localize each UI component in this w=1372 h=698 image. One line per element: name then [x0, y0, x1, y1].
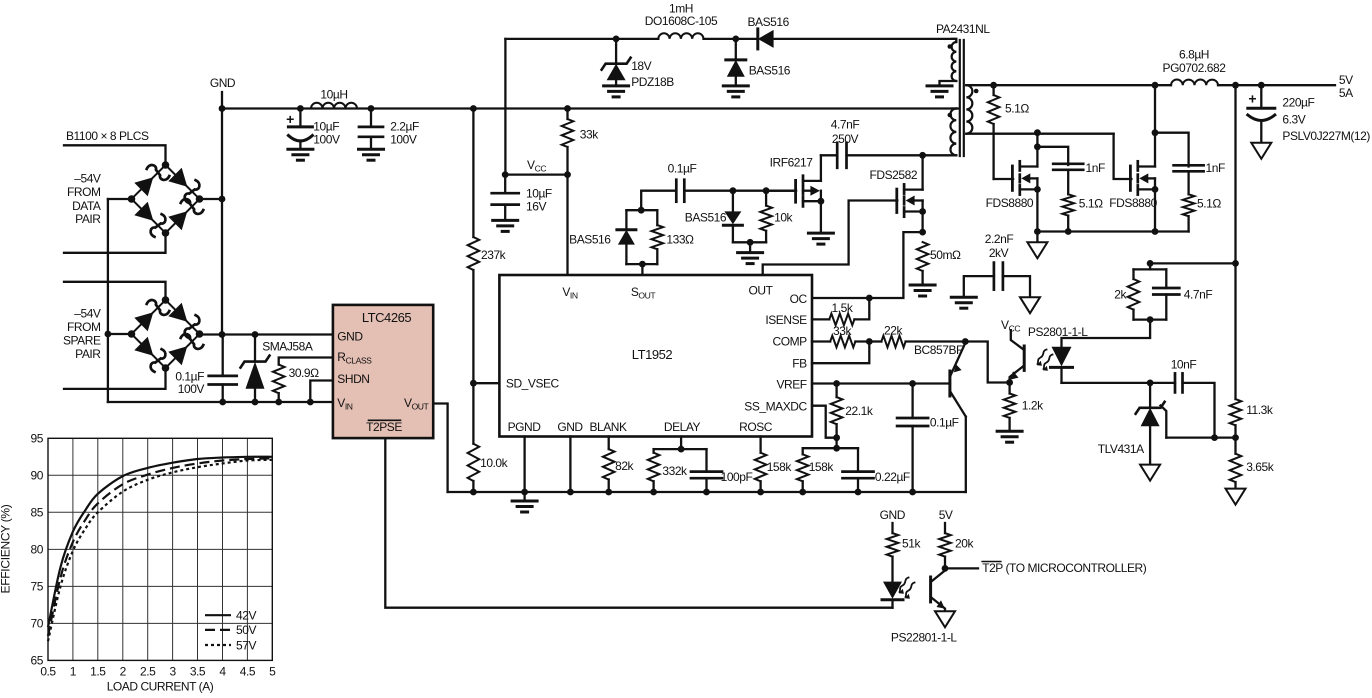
- wire T2PSE to opto: [385, 438, 892, 608]
- ground: [935, 611, 955, 627]
- svg-text:FDS8880: FDS8880: [1109, 196, 1157, 210]
- svg-text:158k: 158k: [809, 460, 835, 474]
- svg-text:57V: 57V: [236, 638, 256, 652]
- svg-text:85: 85: [31, 505, 44, 519]
- svg-text:PDZ18B: PDZ18B: [631, 75, 674, 89]
- label PS2801-1-L: [1028, 325, 1088, 339]
- svg-text:5V: 5V: [939, 508, 953, 522]
- ground: [1226, 489, 1246, 505]
- ground: [808, 233, 833, 244]
- transistor FDS8880 second: [1109, 85, 1158, 231]
- transistor BC857BF: [914, 338, 969, 492]
- svg-text:COMP: COMP: [772, 334, 807, 348]
- svg-text:10µF: 10µF: [526, 187, 552, 201]
- IC LTC4265: [333, 305, 433, 438]
- graph curve 57V: [48, 460, 272, 641]
- resistor 20k: [939, 523, 974, 572]
- svg-text:B1100 × 8 PLCS: B1100 × 8 PLCS: [66, 129, 149, 143]
- IC LT1952: [499, 275, 812, 437]
- ground: [951, 297, 976, 308]
- svg-text:4: 4: [219, 665, 226, 679]
- svg-text:0.22µF: 0.22µF: [875, 470, 910, 484]
- svg-text:FROM: FROM: [67, 185, 101, 199]
- svg-text:4.7nF: 4.7nF: [831, 117, 860, 131]
- svg-text:SS_MAXDC: SS_MAXDC: [744, 399, 807, 413]
- svg-text:22.1k: 22.1k: [845, 404, 874, 418]
- svg-text:FB: FB: [792, 356, 807, 370]
- wire VOUT: [433, 404, 447, 493]
- svg-text:+: +: [286, 111, 294, 127]
- svg-text:33k: 33k: [580, 128, 599, 142]
- svg-text:100V: 100V: [178, 382, 205, 396]
- svg-text:ROSC: ROSC: [739, 420, 773, 434]
- resistor 22.1k: [831, 384, 874, 452]
- wire source rail: [1037, 228, 1188, 235]
- svg-text:1nF: 1nF: [1206, 161, 1225, 175]
- svg-text:OC: OC: [790, 292, 808, 306]
- label 5V: [939, 508, 953, 522]
- svg-text:332k: 332k: [662, 464, 688, 478]
- svg-text:10k: 10k: [774, 211, 793, 225]
- capacitor 2.2nF 2kV: [964, 232, 1030, 297]
- wire PGND pin: [523, 437, 525, 502]
- wire switch node: [847, 152, 957, 159]
- wire bridge1 left: [108, 198, 132, 200]
- svg-text:BAS516: BAS516: [685, 211, 727, 225]
- svg-text:2kV: 2kV: [989, 246, 1009, 260]
- wire 5V output: [1218, 82, 1335, 89]
- svg-text:1.5: 1.5: [90, 665, 106, 679]
- svg-text:10µH: 10µH: [320, 87, 347, 101]
- diode BAS516 shunt: [726, 39, 791, 86]
- svg-text:T2PSE: T2PSE: [366, 420, 402, 434]
- resistor 237k: [468, 237, 507, 270]
- resistor 30.9ohm: [273, 358, 333, 403]
- svg-text:1: 1: [70, 665, 77, 679]
- svg-text:GND: GND: [337, 330, 363, 344]
- svg-text:18V: 18V: [631, 59, 651, 73]
- wire -54V rail: [108, 399, 333, 406]
- opto LED PS22801: [882, 582, 903, 608]
- svg-text:T2P (TO MICROCONTROLLER): T2P (TO MICROCONTROLLER): [982, 561, 1147, 575]
- svg-text:1nF: 1nF: [1086, 161, 1105, 175]
- resistor 3.65k: [1230, 438, 1275, 489]
- wire DELAY node: [654, 437, 707, 453]
- svg-text:PGND: PGND: [508, 420, 542, 434]
- wire T2P: [945, 567, 978, 569]
- ground: [1020, 297, 1040, 313]
- diode BAS516 sout: [569, 210, 657, 264]
- node GND label: [210, 76, 236, 90]
- svg-text:158k: 158k: [767, 460, 793, 474]
- wire data pair B: [64, 233, 166, 253]
- svg-text:PA2431NL: PA2431NL: [936, 22, 990, 36]
- zener 18V PDZ18B: [602, 39, 675, 89]
- wire VREF: [812, 380, 950, 387]
- svg-text:LT1952: LT1952: [632, 347, 673, 362]
- capacitor 100pF: [691, 449, 752, 492]
- opto light arrows 2: [899, 578, 915, 599]
- ground: [927, 86, 952, 97]
- svg-text:100V: 100V: [390, 133, 417, 147]
- svg-text:DO1608C-105: DO1608C-105: [645, 14, 718, 28]
- label 5V 5A: [1339, 73, 1353, 100]
- svg-text:5.1Ω: 5.1Ω: [1005, 102, 1029, 116]
- wire SD_VSEC: [473, 382, 499, 384]
- svg-text:–54V: –54V: [74, 172, 101, 186]
- ground: [1251, 143, 1271, 159]
- svg-text:TLV431A: TLV431A: [1098, 442, 1144, 456]
- svg-text:SHDN: SHDN: [337, 372, 369, 386]
- resistor 33k: [562, 109, 600, 175]
- svg-text:10µF: 10µF: [313, 120, 339, 134]
- ground: [288, 149, 313, 160]
- capacitor 4.7nF fb: [1153, 269, 1212, 319]
- diode BAS516 gate clamp: [685, 191, 743, 243]
- ground: [910, 285, 935, 296]
- wire secondary bottom: [966, 129, 1113, 136]
- resistor 1.5k: [812, 298, 869, 325]
- svg-text:95: 95: [31, 431, 44, 445]
- svg-text:11.3k: 11.3k: [1246, 403, 1274, 417]
- wire top rail: [505, 36, 658, 43]
- svg-text:SPARE: SPARE: [63, 334, 101, 348]
- svg-text:BAS516: BAS516: [749, 64, 791, 78]
- svg-text:LTC4265: LTC4265: [362, 310, 412, 325]
- graph axis labels: [31, 431, 277, 678]
- svg-text:20k: 20k: [955, 537, 974, 551]
- ground: [604, 86, 629, 97]
- graph grid: [48, 438, 272, 660]
- svg-text:5: 5: [269, 665, 276, 679]
- svg-text:2.2µF: 2.2µF: [390, 120, 419, 134]
- svg-text:3.5: 3.5: [190, 665, 206, 679]
- bridge rectifier B1100 (data pair): [128, 161, 204, 237]
- svg-text:70: 70: [31, 616, 44, 630]
- opto LED PS2801: [1051, 347, 1073, 383]
- graph legend: [205, 609, 256, 653]
- inductor 6.8uH PG0702.682: [1163, 48, 1227, 86]
- svg-text:10.0k: 10.0k: [480, 456, 509, 470]
- transformer core: [960, 40, 964, 156]
- node VCC opto: [1001, 318, 1020, 334]
- ground: [512, 501, 537, 512]
- wire maxdc node: [803, 447, 858, 449]
- ground: [738, 253, 763, 264]
- node VCC: [502, 158, 571, 178]
- svg-text:30.9Ω: 30.9Ω: [289, 366, 320, 380]
- svg-text:51k: 51k: [902, 537, 921, 551]
- svg-text:100pF: 100pF: [721, 470, 753, 484]
- wire GND to LTC4265: [200, 331, 333, 338]
- svg-text:PS22801-1-L: PS22801-1-L: [891, 631, 958, 645]
- resistor 10k: [760, 191, 793, 243]
- wire fb divider node: [1166, 434, 1239, 441]
- transformer primary W2: [948, 109, 957, 156]
- capacitor 220uF 6.3V: [1248, 85, 1371, 143]
- opto transistor PS2801: [1006, 330, 1024, 386]
- capacitor 10uF 16V: [492, 175, 552, 221]
- svg-text:2.5: 2.5: [140, 665, 156, 679]
- transistor IRF6217: [770, 155, 825, 233]
- svg-text:OUT: OUT: [749, 284, 774, 298]
- svg-text:DATA: DATA: [72, 199, 101, 213]
- resistor 50mohm: [917, 242, 961, 285]
- svg-text:3: 3: [169, 665, 176, 679]
- wire to 10k: [472, 383, 474, 444]
- svg-text:133Ω: 133Ω: [666, 232, 694, 246]
- svg-text:2: 2: [120, 665, 127, 679]
- svg-text:PSLV0J227M(12): PSLV0J227M(12): [1282, 129, 1370, 143]
- wire data pair A: [64, 145, 166, 165]
- inductor 1mH DO1608C-105: [645, 1, 718, 39]
- resistor 158k rosc: [755, 437, 793, 493]
- svg-text:ISENSE: ISENSE: [765, 313, 807, 327]
- wire LED cathode row: [1062, 380, 1176, 387]
- wire negative bus: [105, 199, 112, 402]
- svg-text:50V: 50V: [236, 623, 256, 637]
- ground: [493, 220, 518, 231]
- svg-text:PAIR: PAIR: [75, 212, 101, 226]
- wire: [704, 36, 758, 43]
- svg-text:82k: 82k: [615, 459, 634, 473]
- wire SS_MAXDC: [812, 406, 837, 438]
- wire 5V riser: [1232, 85, 1239, 399]
- svg-text:PG0702.682: PG0702.682: [1163, 61, 1227, 75]
- wire bridge2 left: [108, 333, 132, 335]
- wire FB: [812, 342, 869, 364]
- wire main rail: [222, 105, 959, 112]
- capacitor 1nF snub1: [1037, 147, 1105, 195]
- wire current sense: [812, 232, 923, 301]
- opto light arrows: [1037, 350, 1053, 371]
- svg-text:VREF: VREF: [776, 378, 806, 392]
- capacitor 10uF 100V: [286, 109, 340, 150]
- resistor 11.3k: [1230, 399, 1274, 438]
- svg-text:42V: 42V: [236, 609, 256, 623]
- wire 2k top link: [1147, 260, 1236, 267]
- svg-text:5.1Ω: 5.1Ω: [1197, 197, 1221, 211]
- capacitor 0.1uF vref: [897, 384, 959, 493]
- svg-text:50mΩ: 50mΩ: [930, 248, 961, 262]
- wire spare pair A: [64, 282, 166, 300]
- svg-text:0.1µF: 0.1µF: [930, 415, 959, 429]
- wire 237k to SD_VSEC: [470, 270, 477, 387]
- svg-text:220µF: 220µF: [1282, 96, 1314, 110]
- wire: [1036, 232, 1038, 243]
- wire 5V rail: [966, 82, 1171, 89]
- svg-text:4.7nF: 4.7nF: [1184, 288, 1213, 302]
- TVS SMAJ58A: [241, 335, 313, 403]
- graph curve 50V: [48, 458, 272, 636]
- shunt ref TLV431A: [1098, 383, 1167, 465]
- capacitor 4.7nF 250V: [821, 117, 859, 168]
- label PS22801-1-L: [891, 631, 958, 645]
- wire SOUT: [626, 261, 657, 275]
- svg-text:75: 75: [31, 579, 44, 593]
- inductor 10uH: [311, 87, 357, 108]
- label PA2431NL: [936, 22, 990, 36]
- svg-text:90: 90: [31, 468, 44, 482]
- transformer primary W1: [940, 39, 957, 86]
- wire gate2 link: [1114, 134, 1132, 179]
- resistor 22k: [869, 323, 965, 347]
- ground: [1027, 242, 1047, 258]
- svg-text:DELAY: DELAY: [664, 420, 701, 434]
- wire bridge1 right: [200, 198, 223, 200]
- resistor 82k: [603, 437, 635, 493]
- svg-text:LOAD CURRENT (A): LOAD CURRENT (A): [107, 680, 214, 694]
- svg-text:0.1µF: 0.1µF: [668, 161, 697, 175]
- svg-text:GND: GND: [557, 420, 583, 434]
- svg-text:SMAJ58A: SMAJ58A: [262, 339, 313, 353]
- svg-text:EFFICIENCY (%): EFFICIENCY (%): [0, 504, 13, 593]
- svg-text:100V: 100V: [313, 133, 340, 147]
- svg-text:6.3V: 6.3V: [1282, 112, 1305, 126]
- label GND: [880, 508, 906, 522]
- svg-text:BC857BF: BC857BF: [914, 343, 963, 357]
- svg-text:GND: GND: [880, 508, 906, 522]
- wire VCC to VIN pin: [566, 175, 568, 275]
- transformer secondary W3: [966, 85, 978, 134]
- svg-text:5A: 5A: [1339, 86, 1353, 100]
- diode BAS516 series: [748, 15, 957, 49]
- wire SHDN: [310, 381, 333, 403]
- svg-text:PAIR: PAIR: [75, 347, 101, 361]
- svg-text:16V: 16V: [526, 199, 546, 213]
- graph axis titles: [0, 504, 214, 693]
- svg-text:80: 80: [31, 542, 44, 556]
- graph frame: [48, 438, 272, 660]
- ground: [997, 431, 1022, 442]
- svg-text:1.2k: 1.2k: [1022, 398, 1044, 412]
- svg-text:–54V: –54V: [74, 307, 101, 321]
- wire 10k to rail: [470, 481, 477, 495]
- label T2P: [982, 561, 1147, 575]
- svg-text:33k: 33k: [833, 324, 852, 338]
- wire GND stub down: [219, 92, 226, 338]
- svg-text:22k: 22k: [884, 323, 903, 337]
- resistor 1.2k: [1004, 383, 1044, 432]
- ground: [723, 86, 748, 97]
- wire opto emitter to 22k node: [965, 342, 1009, 383]
- svg-text:PS2801-1-L: PS2801-1-L: [1028, 325, 1088, 339]
- wire spare pair B: [64, 368, 166, 389]
- svg-text:5.1Ω: 5.1Ω: [1079, 197, 1103, 211]
- graph curve 42V: [48, 457, 272, 627]
- resistor 5.1ohm snub1: [1062, 194, 1103, 235]
- svg-text:6.8µH: 6.8µH: [1179, 48, 1209, 62]
- label -54V FROM SPARE PAIR: [63, 307, 101, 361]
- resistor 158k maxdc: [797, 448, 834, 492]
- svg-text:FROM: FROM: [67, 320, 101, 334]
- resistor 51k: [887, 523, 922, 582]
- svg-text:BAS516: BAS516: [569, 232, 611, 246]
- svg-text:2k: 2k: [1114, 288, 1127, 302]
- resistor 2k: [1114, 269, 1139, 319]
- wire: [733, 239, 766, 253]
- resistor 5.1ohm gate1: [988, 85, 1030, 179]
- capacitor 10nF: [1171, 358, 1215, 438]
- wire PGND rail: [448, 489, 966, 496]
- svg-text:250V: 250V: [832, 132, 859, 146]
- capacitor 1nF snub2: [1155, 133, 1225, 195]
- svg-text:GND: GND: [210, 76, 236, 90]
- capacitor 0.22uF: [843, 448, 910, 492]
- resistor 332k: [648, 449, 688, 492]
- ground: [1140, 465, 1160, 481]
- wire GND pin: [569, 437, 571, 493]
- wire 2k cap rails: [1062, 263, 1167, 346]
- label B1100 x 8 PLCS: [66, 129, 149, 143]
- opto transistor PS22801: [931, 571, 945, 612]
- svg-text:FDS2582: FDS2582: [870, 168, 918, 182]
- svg-text:10nF: 10nF: [1171, 358, 1197, 372]
- svg-text:2.2nF: 2.2nF: [985, 232, 1014, 246]
- wire OUT to gate: [763, 201, 898, 276]
- svg-text:1.5k: 1.5k: [832, 301, 854, 315]
- svg-text:237k: 237k: [481, 248, 507, 262]
- transistor FDS8880 first: [986, 133, 1041, 235]
- capacitor 2.2uF 100V: [359, 109, 419, 150]
- wire 237k chain top: [472, 109, 474, 238]
- wire top rail riser: [504, 39, 506, 175]
- ground: [359, 149, 384, 160]
- svg-text:3.65k: 3.65k: [1246, 460, 1275, 474]
- svg-text:BAS516: BAS516: [748, 15, 790, 29]
- svg-text:SD_VSEC: SD_VSEC: [506, 377, 560, 391]
- capacitor 0.1uF: [638, 161, 796, 213]
- wire IRF gate: [766, 190, 796, 192]
- svg-text:+: +: [1248, 91, 1256, 107]
- svg-text:4.5: 4.5: [240, 665, 256, 679]
- svg-text:BLANK: BLANK: [589, 420, 627, 434]
- svg-text:FDS8880: FDS8880: [986, 196, 1034, 210]
- resistor 133ohm: [652, 210, 695, 264]
- svg-text:IRF6217: IRF6217: [770, 156, 814, 170]
- svg-text:0.5: 0.5: [40, 665, 56, 679]
- resistor 10.0k: [468, 444, 509, 481]
- bridge rectifier B1100 (spare pair): [128, 296, 204, 372]
- resistor 33k comp: [812, 324, 873, 347]
- resistor 5.1ohm snub2: [1183, 194, 1222, 231]
- capacitor 0.1uF 100V: [175, 335, 236, 403]
- label -54V FROM DATA PAIR: [67, 172, 101, 226]
- transistor FDS2582: [870, 155, 926, 235]
